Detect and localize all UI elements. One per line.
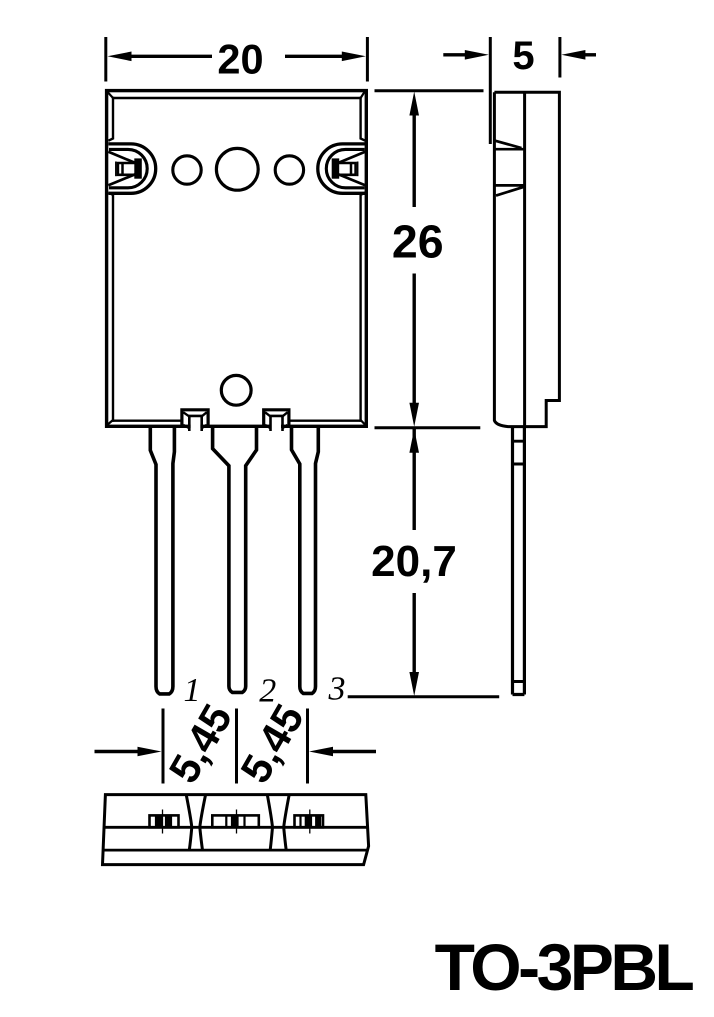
dim 5,45 arrow right — [331, 750, 376, 753]
hole center large — [216, 148, 258, 190]
bottom edge tab 2 — [264, 410, 289, 431]
right mounting slot D-feature — [318, 144, 365, 193]
bottom view pin 1 section — [150, 810, 179, 834]
side view wedge 2 — [494, 185, 524, 195]
bottom edge channel gaps — [191, 417, 281, 431]
bottom view pin 2 section — [212, 810, 258, 834]
front view body outline — [107, 91, 367, 427]
bottom view notch 2 — [267, 795, 289, 851]
dim 26 extension line bottom — [375, 426, 481, 429]
leg 2 — [213, 427, 257, 693]
left mounting slot D-feature — [108, 144, 155, 193]
bottom view outline — [103, 795, 369, 865]
svg-text:20: 20 — [217, 35, 263, 82]
dim 5,45 extension line 1 — [162, 709, 165, 784]
side view body — [494, 91, 559, 695]
hole left small — [173, 156, 201, 184]
svg-text:20,7: 20,7 — [371, 537, 457, 586]
hole bottom small — [221, 375, 251, 405]
svg-text:5,45: 5,45 — [231, 696, 313, 790]
side view mid line — [523, 91, 526, 428]
svg-text:TO-3PBL: TO-3PBL — [435, 930, 694, 1004]
bottom view mid line — [104, 826, 368, 829]
leg 1 — [150, 427, 174, 694]
front view inner border top — [112, 97, 361, 99]
dim 5 arrow right — [583, 53, 596, 56]
leg 3 — [292, 427, 319, 694]
front view inner border right — [361, 97, 366, 422]
dim 20 extension line left — [104, 37, 107, 82]
bottom view pin 3 section — [295, 810, 324, 834]
bottom view notch 1 — [186, 795, 205, 851]
svg-text:26: 26 — [392, 216, 444, 268]
dim 20 arrow left — [130, 55, 212, 58]
side view wedge 1 — [494, 141, 524, 150]
dim 5,45 extension line 3 — [306, 709, 309, 784]
dim 5 arrow left — [443, 53, 467, 56]
dim 26 line — [413, 112, 416, 404]
dim 26 extension line top — [375, 89, 484, 92]
front view inner border left — [108, 97, 113, 422]
side view pin — [513, 427, 525, 695]
dim 5 extension line right — [558, 37, 561, 78]
dim 5,45 extension line 2 — [235, 709, 238, 784]
front view corner bevels — [107, 91, 366, 426]
dim 5 extension line left — [489, 37, 492, 144]
dim 20 arrow right — [285, 55, 342, 58]
dim 20 extension line right — [366, 37, 369, 82]
svg-text:5,45: 5,45 — [160, 696, 242, 790]
dim 5,45 arrow left — [95, 750, 141, 753]
front view inner border bottom — [112, 420, 361, 422]
svg-text:3: 3 — [328, 671, 346, 708]
bottom edge tab 1 — [182, 410, 208, 431]
side view pin crimp marks — [513, 441, 525, 681]
dim 20,7 line — [413, 429, 416, 675]
svg-text:5: 5 — [512, 34, 534, 78]
bottom view lower line — [103, 849, 367, 852]
side view outline — [494, 92, 559, 426]
dim 20,7 extension line bottom — [348, 695, 500, 698]
hole right small — [275, 156, 303, 184]
